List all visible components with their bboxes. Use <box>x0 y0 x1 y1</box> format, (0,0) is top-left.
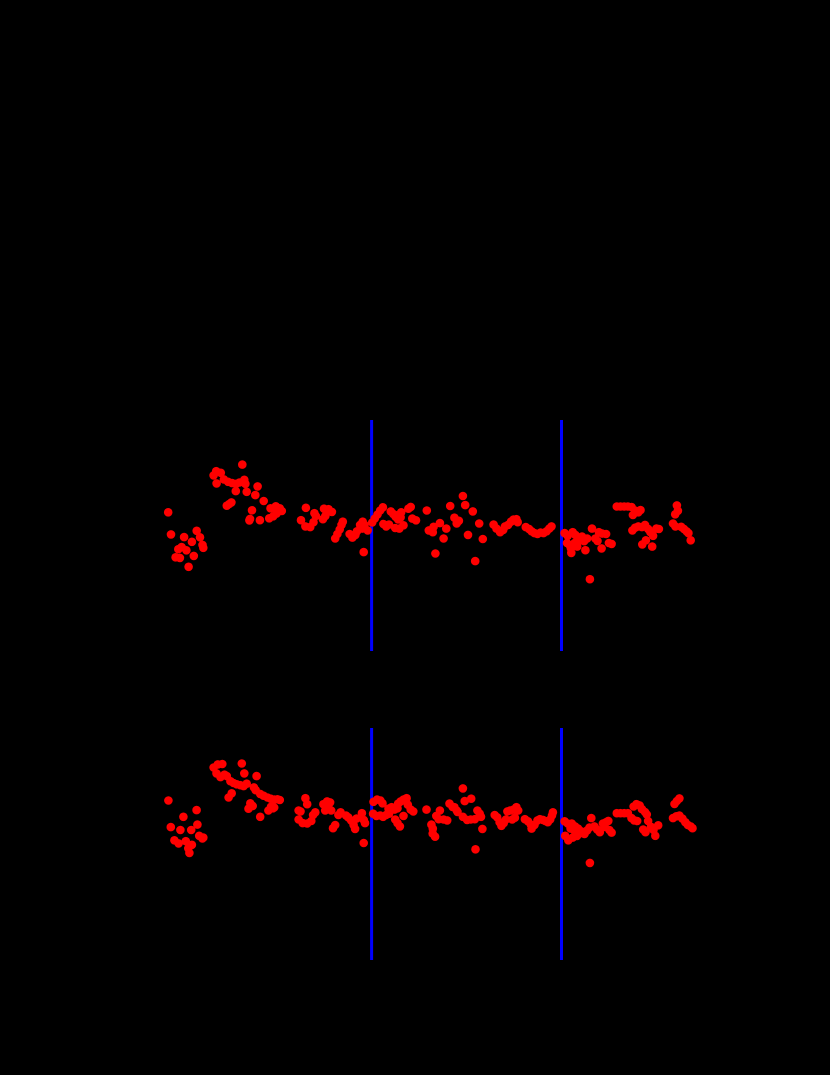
panel 1 red scatter points <box>164 460 695 583</box>
panel 1 vline right (blue) <box>560 420 563 651</box>
panel 2 vline right (blue) <box>560 728 563 960</box>
panel 1 vline left (blue) <box>370 420 373 651</box>
panel 2 vline left (blue) <box>370 728 373 960</box>
panel 2 red scatter points <box>164 759 697 867</box>
